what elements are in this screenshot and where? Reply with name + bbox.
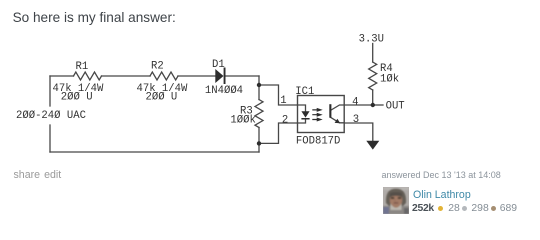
wire node bottom to pin 2 [259, 123, 298, 143]
svg-text:1N4ØØ4: 1N4ØØ4 [205, 85, 243, 97]
junction node OUT [371, 103, 375, 107]
LED arrow 2 [312, 113, 322, 117]
svg-text:3: 3 [353, 114, 359, 126]
wire pin4 to OUT node [344, 104, 373, 106]
resistor R2 [150, 72, 178, 80]
wire top left segment [50, 75, 74, 77]
LED D inside IC1 [301, 111, 309, 117]
wire R4 top [372, 44, 374, 63]
svg-text:1: 1 [280, 95, 286, 107]
wire between R1 and R2 [102, 75, 151, 77]
svg-text:2ØØ-24Ø UAC: 2ØØ-24Ø UAC [16, 110, 86, 122]
junction node top [257, 83, 261, 87]
svg-text:2: 2 [282, 115, 288, 127]
LED arrow 1 [312, 108, 322, 112]
emitter arrowhead [335, 119, 341, 124]
wire bottom [50, 151, 259, 153]
resistor R3 [255, 100, 263, 128]
wire R2 to D1 [178, 75, 215, 77]
resistor R1 [74, 72, 102, 80]
wire right vertical lower [258, 128, 260, 153]
LED arrow 3 [312, 118, 322, 122]
wire R4 bottom [372, 90, 374, 105]
svg-text:D1: D1 [212, 59, 225, 71]
svg-text:4: 4 [352, 96, 358, 108]
svg-text:OUT: OUT [386, 100, 405, 112]
wire right vertical upper [258, 76, 260, 100]
LED anode wire inside [298, 105, 306, 111]
resistor R4 [369, 62, 377, 90]
phototransistor collector [331, 105, 345, 110]
diode D1 [215, 69, 223, 83]
phototransistor base bar [329, 104, 331, 118]
svg-text:R1: R1 [76, 61, 89, 73]
wire OUT stub [373, 104, 383, 106]
wire D1 to right corner [225, 75, 260, 77]
wire left vertical lower [49, 125, 51, 152]
svg-text:R2: R2 [151, 61, 164, 73]
ground [366, 141, 379, 150]
svg-text:1ØØk: 1ØØk [230, 114, 255, 126]
wire node top to pin 1 [259, 85, 298, 105]
LED cathode wire inside [298, 119, 306, 123]
user avatar [383, 187, 409, 214]
svg-text:IC1: IC1 [295, 86, 314, 98]
svg-text:FOD817D: FOD817D [296, 136, 341, 148]
junction node bottom [257, 141, 261, 145]
optocoupler IC1 body [298, 96, 345, 133]
svg-text:1Øk: 1Øk [380, 74, 399, 86]
wire left vertical upper [49, 76, 51, 106]
phototransistor emitter [331, 117, 345, 123]
wire pin3 to ground [344, 123, 373, 141]
svg-text:2ØØ U: 2ØØ U [146, 92, 178, 104]
svg-text:3.3U: 3.3U [359, 33, 384, 45]
svg-text:2ØØ U: 2ØØ U [61, 92, 93, 104]
